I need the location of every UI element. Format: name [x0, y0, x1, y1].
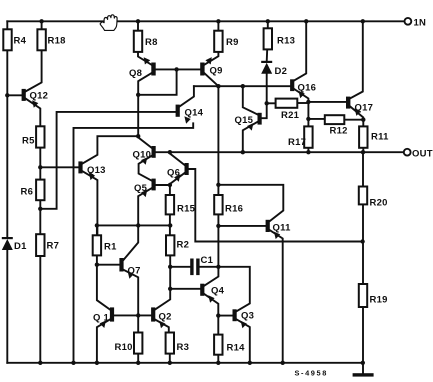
wire Q11 emitter to ground [270, 230, 283, 362]
wire R13 top lead [267, 21, 269, 28]
wire Q7 collector riser [124, 225, 139, 259]
junction dot ground rail R10 [136, 361, 140, 365]
transistor Q13 emitter arrow [89, 173, 95, 181]
resistor R19 [359, 284, 367, 307]
svg-text:Q10: Q10 [133, 150, 152, 161]
svg-text:S-4958: S-4958 [295, 369, 328, 378]
junction dot R8 top [136, 19, 140, 23]
junction dot R5 R6 junction [38, 165, 42, 169]
wire Q5 base / R15 top junction [156, 184, 170, 186]
transistor Q5 base bar [152, 179, 156, 191]
terminal IN circle [405, 18, 412, 25]
transistor Q9 emitter arrow (PNP, points to bar) [205, 57, 211, 64]
svg-text:R21: R21 [281, 110, 300, 121]
transistor Q5 emitter arrow [141, 190, 147, 198]
wire Q17 emitter to R11 [350, 107, 363, 127]
transistor Q14 emitter arrow [184, 116, 190, 124]
transistor Q9 base bar [200, 63, 204, 76]
junction dot Q17 emitter R12 right [361, 118, 365, 122]
wire R6 bottom to R7 top [39, 200, 41, 234]
svg-text:Q14: Q14 [185, 108, 204, 119]
resistor R12 [325, 115, 345, 124]
svg-text:R11: R11 [371, 132, 389, 143]
transistor Q1 emitter arrow [100, 321, 106, 329]
junction dot Q15 collector at y86 [241, 84, 245, 88]
transistor Q12 emitter arrow [32, 100, 38, 108]
transistor Q15 emitter arrow [247, 123, 253, 131]
wire Q1 emitter to ground [97, 319, 110, 362]
svg-text:Q17: Q17 [355, 103, 374, 114]
transistor Q10 base bar [152, 146, 156, 158]
junction dot Q5 emitter Q7 collector [136, 223, 140, 227]
svg-text:Q16: Q16 [298, 83, 317, 94]
wire Q5 emitter down to y225 node [138, 188, 151, 225]
wire Q13 base lead [40, 166, 78, 168]
junction dot Q15 base D2 R21 [265, 101, 269, 105]
svg-text:D1: D1 [14, 241, 27, 252]
wire Q14 emitter current-source column [74, 123, 194, 362]
wire R19 top lead [362, 242, 364, 285]
transistor Q1 base bar [110, 307, 114, 321]
junction dot R17 bottom at OUT line [306, 150, 310, 154]
wire Q7 emitter to bias node [124, 270, 139, 316]
junction dot R17 top R12 left [306, 117, 310, 121]
transistor Q17 base bar [346, 97, 350, 109]
transistor Q15 base bar [258, 113, 262, 125]
junction dot C1 right Q4 collector [216, 265, 220, 269]
transistor Q7 emitter arrow [128, 271, 134, 279]
svg-text:R7: R7 [47, 241, 60, 252]
wire Q16 emitter node [294, 89, 308, 102]
wire base tie down to Q8 collector node [138, 69, 176, 94]
resistor R4 [3, 29, 11, 50]
wire R20 bottom lead [362, 204, 364, 241]
wire Q4 collector riser [204, 267, 218, 286]
junction dot R1 bottom Q7 base [95, 263, 99, 267]
junction dot R16 bottom Q11 base [216, 224, 220, 228]
junction dot ground rail Q3 emitter [248, 361, 252, 365]
wire R8 bottom to Q8 emitter [138, 52, 151, 65]
wire Q8 collector column x138 [138, 73, 151, 148]
junction dot R9 top [216, 19, 220, 23]
junction dot Q12 base [5, 93, 9, 97]
wire Q11 base lead [218, 225, 265, 227]
wire Q6 emitter [170, 173, 185, 185]
wire Q17 collector to rail [350, 21, 363, 98]
junction dot Q9 emitter node y86 [216, 84, 220, 88]
junction dot ground rail Q11 emitter [281, 361, 285, 365]
transistor Q8 base bar [151, 63, 155, 76]
svg-text:Q6: Q6 [167, 168, 180, 179]
wire Q6 collector [170, 152, 185, 165]
svg-text:R18: R18 [48, 36, 66, 47]
junction dot R15 bottom R2 top [168, 223, 172, 227]
svg-text:R13: R13 [277, 36, 295, 47]
wire Q9 emitter node down to R16 top [217, 86, 219, 195]
svg-text:Q2: Q2 [159, 312, 172, 323]
wire Q9 collector to node [204, 73, 218, 86]
svg-text:R14: R14 [227, 343, 246, 354]
wire Q3 emitter to ground [237, 319, 250, 362]
wire R1 bottom to Q7 base [97, 255, 120, 264]
svg-text:R9: R9 [226, 37, 239, 48]
junction dot Q16 emitter R21 Q17 base [306, 100, 310, 104]
transistor Q2 base bar [151, 307, 155, 321]
wire Q10 emitter to Q5 collector [139, 156, 152, 181]
wire R6 junction riser to Q14 base [40, 112, 176, 209]
svg-text:R15: R15 [177, 204, 196, 215]
transistor Q11 base bar [266, 220, 270, 232]
junction dot R18 top [39, 19, 43, 23]
svg-text:Q12: Q12 [30, 91, 49, 102]
junction dot R1 top [95, 223, 99, 227]
wire Q10 base to OUT terminal [156, 151, 404, 153]
wire Q15 collector riser [243, 86, 258, 114]
junction dot ground rail R19 [361, 361, 365, 365]
svg-text:R12: R12 [330, 126, 348, 137]
wire C1 left lead [170, 266, 190, 268]
wire Q8 Q9 base tie [156, 68, 201, 70]
resistor R15 [166, 195, 174, 214]
svg-text:R20: R20 [370, 198, 388, 209]
wire Q15 base lead [261, 103, 266, 118]
svg-text:Q11: Q11 [273, 223, 292, 234]
svg-text:Q 1: Q 1 [93, 313, 110, 324]
wire C1 net to Q3 collector [218, 267, 249, 311]
wire R12 right lead [344, 119, 363, 121]
transistor Q6 base bar [185, 163, 189, 175]
resistor R1 [93, 235, 101, 255]
wire R18 top lead [41, 21, 43, 29]
junction dot R20 R19 Q6 base net [360, 239, 364, 243]
transistor Q10 emitter arrow [141, 157, 147, 165]
svg-text:Q8: Q8 [129, 68, 142, 79]
wire Q2 emitter to R3 [155, 320, 169, 333]
svg-text:R16: R16 [225, 204, 243, 215]
junction dot R11 R20 at OUT line [361, 150, 365, 154]
junction dot Q4 emitter Q3 base R14 top [216, 313, 220, 317]
wire C1 right lead [200, 266, 219, 268]
svg-text:Q3: Q3 [241, 311, 254, 322]
junction dot Q1 Q2 base R10 top [136, 313, 140, 317]
junction dot ground rail R7 [38, 361, 42, 365]
resistor R3 [166, 333, 174, 354]
wire R16 bottom net down to C1 node [217, 214, 219, 266]
svg-text:D2: D2 [275, 66, 288, 77]
resistor R13 [264, 28, 272, 49]
resistor R7 [36, 234, 44, 256]
wire R10 leads [137, 315, 139, 362]
wire Q15 emitter to OUT line [243, 122, 258, 152]
resistor R8 [134, 31, 142, 52]
hand cursor artifact over top rail [100, 15, 117, 31]
transistor Q16 emitter arrow [299, 91, 305, 99]
wire R2 bottom to C1 node [169, 255, 171, 266]
wire Q14 collector riser [180, 86, 194, 106]
junction dot Q8 collector node [136, 93, 140, 97]
transistor Q4 emitter arrow [208, 295, 214, 303]
svg-text:Q4: Q4 [211, 286, 225, 297]
svg-text:R5: R5 [22, 136, 35, 147]
junction dot R13 top [266, 19, 270, 23]
transistor Q2 emitter arrow [159, 321, 165, 329]
transistor Q4 base bar [200, 284, 204, 296]
transistor Q7 base bar [119, 258, 123, 272]
transistor Q17 emitter arrow [355, 108, 361, 116]
svg-text:R17: R17 [288, 137, 306, 148]
resistor R5 [36, 126, 44, 147]
svg-text:R19: R19 [370, 295, 388, 306]
resistor R14 [214, 335, 222, 355]
wire Q4 emitter to Q3 base node [204, 294, 218, 316]
wire Q17 base lead [308, 101, 346, 103]
junction dot Q17 collector at rail [361, 19, 365, 23]
junction dot R6 bottom [38, 207, 42, 211]
junction dot ground rail R3 [168, 361, 172, 365]
capacitor C1 left plate [190, 259, 193, 276]
wire R9 top lead [217, 21, 219, 30]
transistor Q3 base bar [233, 309, 237, 321]
transistor Q6 emitter arrow [174, 174, 180, 182]
svg-text:R6: R6 [21, 187, 34, 198]
svg-text:Q5: Q5 [134, 183, 148, 194]
wire R1 top lead [96, 225, 98, 235]
svg-text:R10: R10 [115, 342, 133, 353]
wire Q12 emitter to R5 [26, 99, 41, 127]
wire Q12 base lead [7, 94, 21, 96]
wire Q6 base to R19 R20 junction [189, 169, 363, 242]
junction dot Q5 base R15 top [168, 183, 172, 187]
wire Q16 collector to rail [294, 21, 306, 80]
resistor R17 [304, 126, 312, 147]
resistor R11 [359, 126, 367, 147]
resistor R18 [37, 29, 45, 50]
svg-text:R4: R4 [14, 36, 27, 47]
wire horizontal net y86 to Q16 base [194, 85, 290, 87]
terminal OUT circle [404, 149, 411, 156]
transistor Q3 emitter arrow [241, 321, 247, 329]
svg-text:Q13: Q13 [87, 165, 106, 176]
svg-text:R8: R8 [145, 37, 158, 48]
junction dot ground rail Q1 emitter [95, 361, 99, 365]
junction dot R16 top Q11 collector [216, 183, 220, 187]
wire Q16 emitter node down to R17 R12 [307, 102, 309, 127]
transistor Q13 base bar [78, 161, 82, 173]
svg-text:R2: R2 [177, 240, 190, 251]
resistor R9 [214, 31, 222, 52]
svg-text:Q9: Q9 [210, 66, 223, 77]
transistor Q16 base bar [290, 79, 294, 91]
wire Q3 base lead [218, 315, 232, 317]
wire R3 bottom lead [169, 354, 171, 363]
wire R21 left lead [267, 102, 276, 104]
resistor R21 [276, 99, 298, 108]
svg-text:R1: R1 [104, 242, 117, 253]
wire Q4 base lead [170, 288, 200, 290]
wire R14 leads [217, 316, 219, 363]
junction dot Q13 collector at x138 [136, 134, 140, 138]
wire R1 node down to Q1 collector [97, 265, 110, 310]
wire R5 to R6 junction [39, 148, 41, 180]
junction dot Q15 emitter at OUT line [241, 150, 245, 154]
junction dot R2 bottom C1 left [168, 265, 172, 269]
wire left column (R4/D1 branch) [6, 21, 8, 363]
diode D1 (cathode bar and triangle) [2, 237, 13, 239]
wire R18 bottom to Q12 collector [26, 50, 42, 91]
transistor Q14 base bar [176, 105, 180, 117]
wire R7 bottom to ground rail [39, 256, 41, 363]
transistor Q12 base bar [22, 89, 26, 101]
wire R12 left lead [308, 118, 324, 120]
resistor R16 [214, 195, 222, 214]
resistor R20 [359, 187, 367, 205]
capacitor C1 right plate [196, 259, 199, 276]
resistor R2 [166, 235, 174, 255]
transistor Q8 emitter arrow (PNP, points to bar) [144, 57, 151, 64]
wire R21 right lead [297, 102, 308, 104]
wire R9 bottom to Q9 emitter [204, 52, 218, 65]
wire R8 top lead [137, 21, 139, 30]
diode D2 (cathode bar and triangle) [261, 61, 272, 63]
wire R13 to D2 [266, 49, 269, 61]
svg-text:Q15: Q15 [235, 115, 254, 126]
svg-text:C1: C1 [201, 255, 214, 266]
wire R19 bottom to ground [362, 307, 364, 373]
junction dot Q4 base [168, 287, 172, 291]
transistor Q11 emitter arrow [274, 232, 280, 240]
wire Q13 collector to x138 node [83, 136, 139, 163]
junction dot ground rail R14 [216, 361, 220, 365]
svg-text:R3: R3 [177, 342, 190, 353]
junction dot Q6 collector at OUT line [168, 150, 172, 154]
wire R11 bottom lead [362, 148, 364, 152]
svg-text:1N: 1N [414, 18, 427, 29]
junction dot Q8 Q9 base tie [174, 67, 178, 71]
wire C1 node down to Q4 base and Q2 collector [155, 267, 170, 310]
wire R15 bottom to R2 top [169, 214, 171, 235]
resistor R6 [36, 180, 44, 201]
svg-text:OUT: OUT [412, 149, 433, 160]
wire top supply rail (IN net) [7, 20, 404, 22]
wire Q11 collector to R16 top [218, 185, 283, 221]
wire bottom ground rail [7, 362, 363, 364]
wire y225 node R1 to R15 [97, 224, 170, 226]
resistor R10 [134, 333, 142, 354]
junction dot ground rail current source [71, 361, 75, 365]
wire R15 top lead [169, 185, 171, 195]
wire Q13 emitter to R1 top [83, 171, 98, 235]
wire Q1 base to Q2 base [114, 314, 151, 316]
wire D2 to Q15 base node [266, 74, 268, 103]
ground symbol [353, 373, 374, 376]
wire R17 bottom lead [307, 148, 309, 152]
junction dot Q16 collector at rail [304, 19, 308, 23]
wire R20 top lead [362, 152, 364, 186]
svg-text:Q7: Q7 [128, 266, 141, 277]
